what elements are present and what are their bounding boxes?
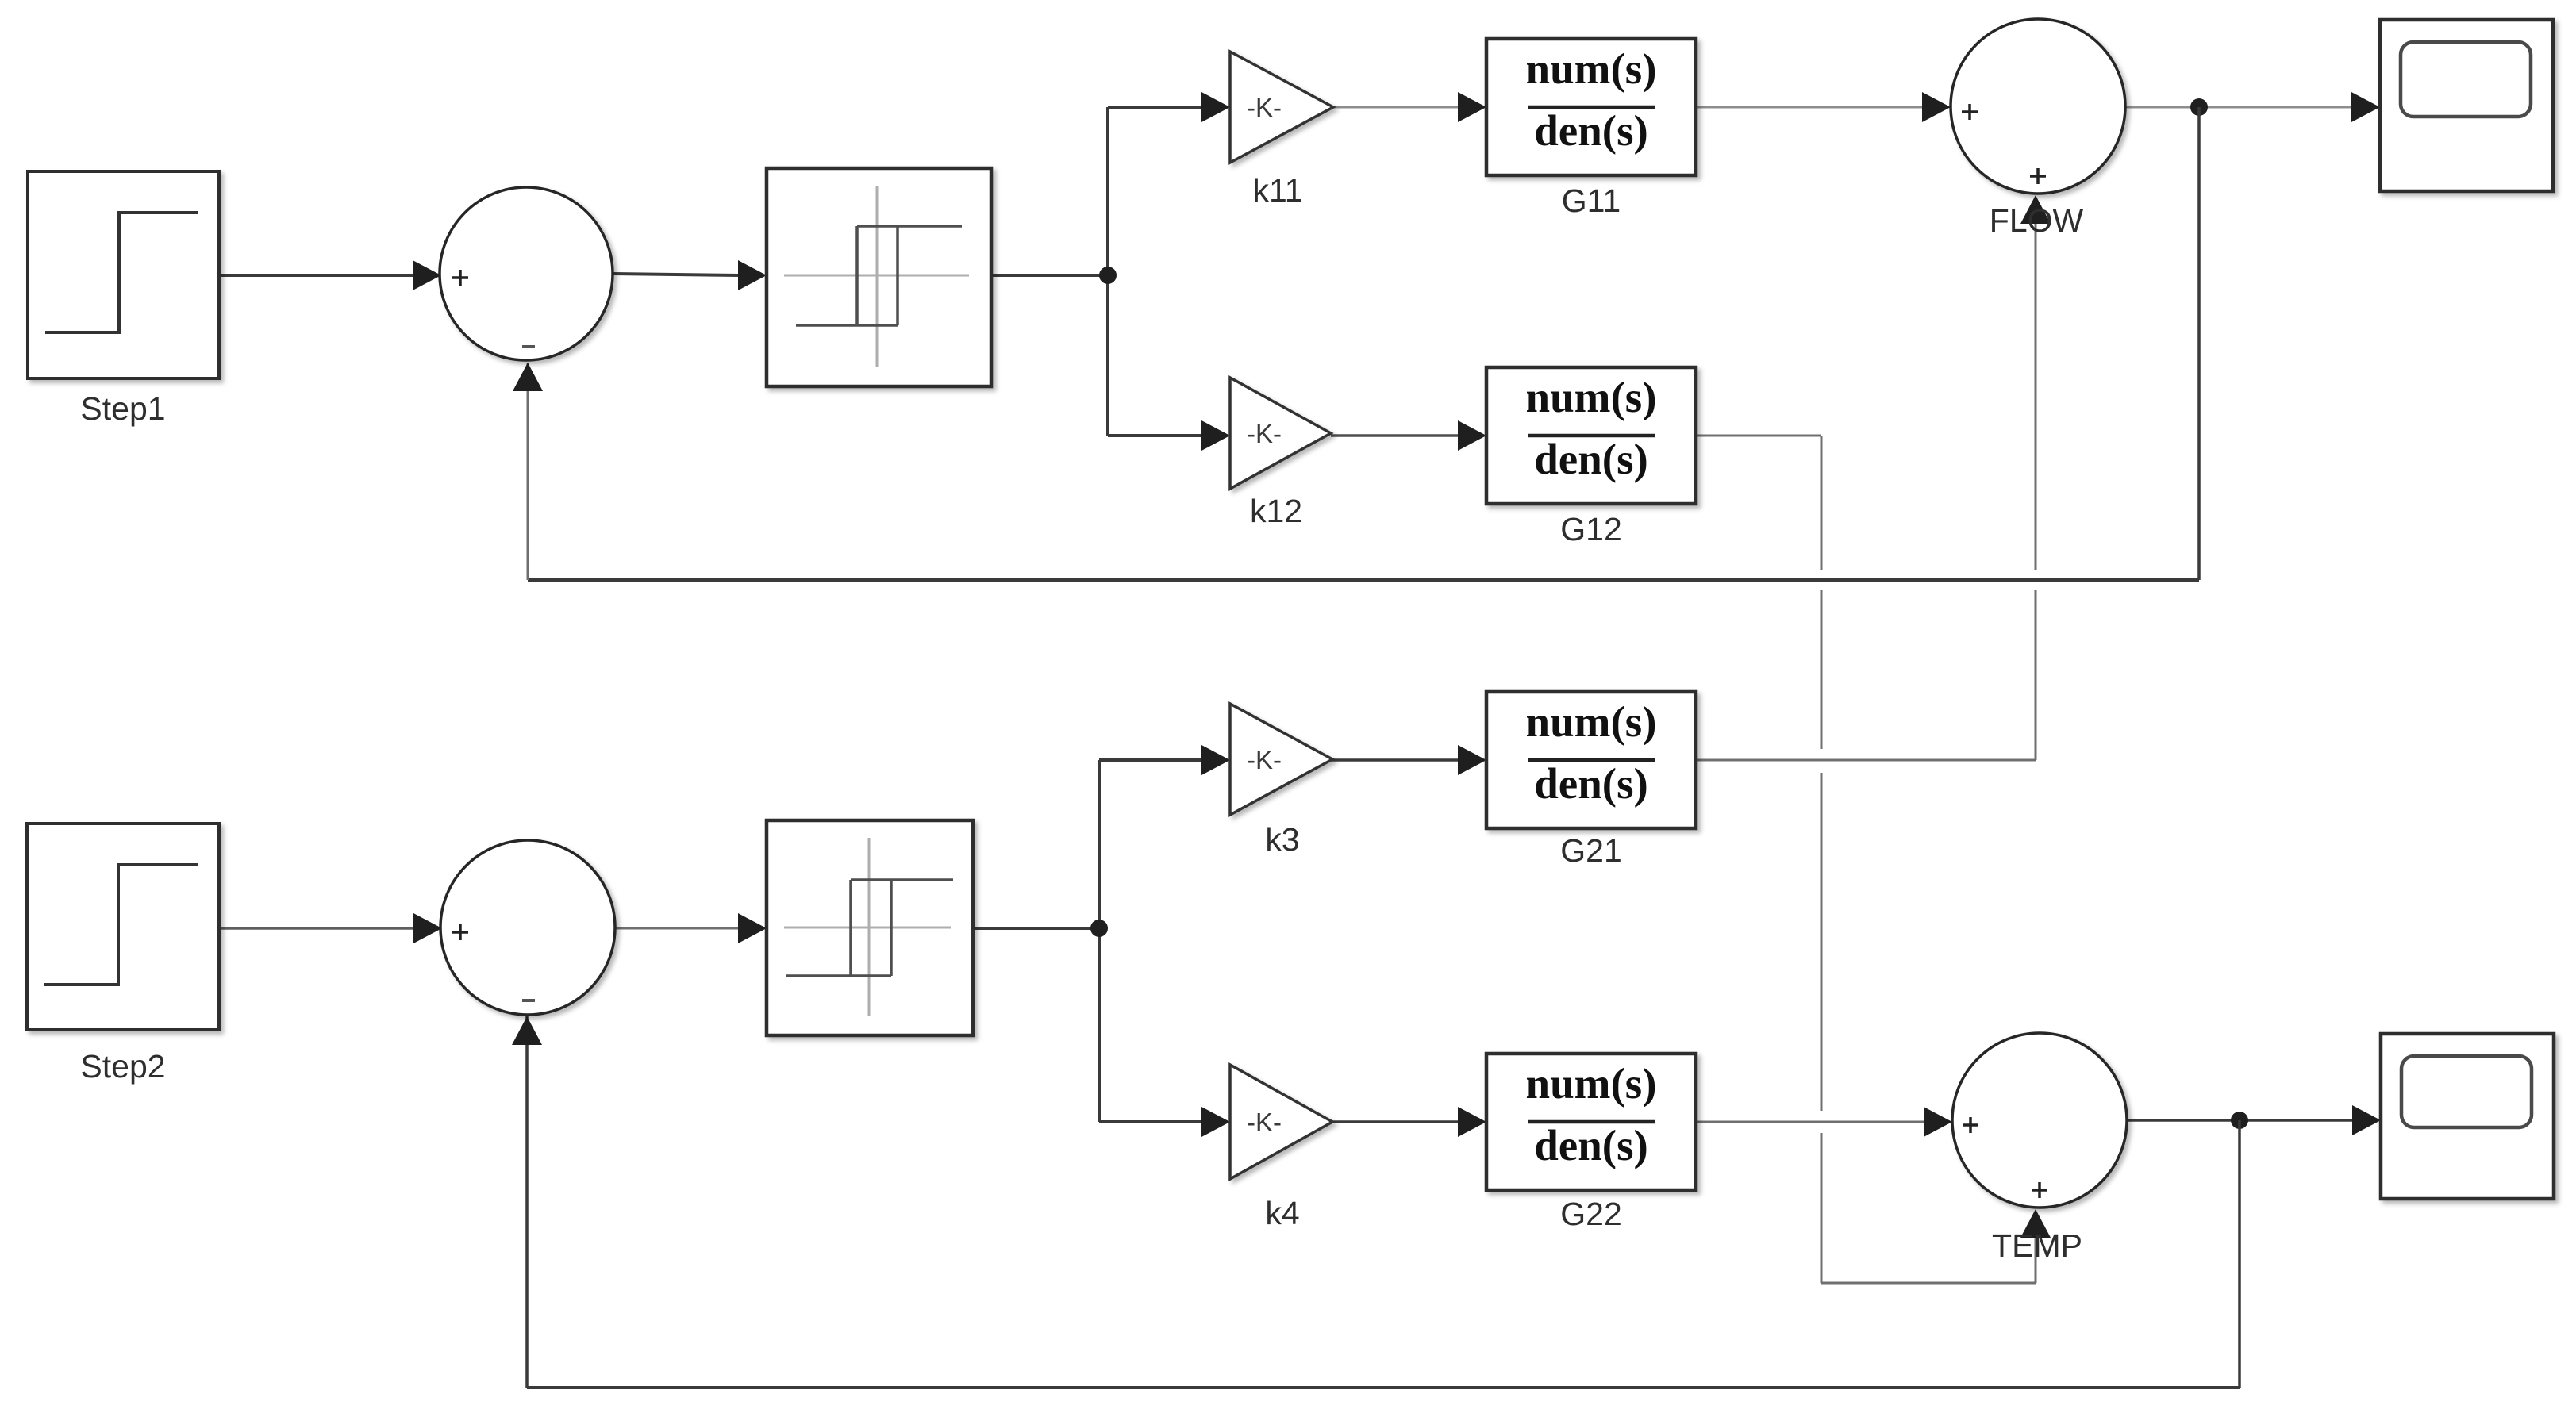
- svg-text:-K-: -K-: [1247, 419, 1282, 448]
- svg-text:G22: G22: [1560, 1196, 1622, 1232]
- svg-text:-K-: -K-: [1247, 93, 1282, 122]
- svg-text:-K-: -K-: [1247, 1108, 1282, 1137]
- svg-text:den(s): den(s): [1534, 759, 1648, 808]
- svg-text:k4: k4: [1265, 1195, 1299, 1231]
- svg-text:k12: k12: [1250, 493, 1302, 529]
- svg-text:den(s): den(s): [1534, 435, 1648, 483]
- svg-text:G11: G11: [1562, 182, 1621, 219]
- svg-text:den(s): den(s): [1534, 1121, 1648, 1169]
- svg-text:G12: G12: [1560, 511, 1622, 547]
- svg-text:den(s): den(s): [1534, 106, 1648, 155]
- svg-text:Step2: Step2: [80, 1048, 165, 1085]
- svg-text:num(s): num(s): [1525, 373, 1656, 421]
- svg-text:k11: k11: [1252, 172, 1302, 209]
- svg-text:FLOW: FLOW: [1990, 202, 2084, 239]
- svg-text:-K-: -K-: [1247, 745, 1282, 774]
- svg-text:num(s): num(s): [1525, 1059, 1656, 1108]
- svg-text:k3: k3: [1265, 821, 1299, 858]
- svg-text:Step1: Step1: [80, 390, 165, 427]
- svg-text:TEMP: TEMP: [1992, 1227, 2082, 1264]
- svg-text:G21: G21: [1560, 832, 1622, 869]
- svg-text:num(s): num(s): [1525, 697, 1656, 746]
- svg-text:num(s): num(s): [1525, 44, 1656, 93]
